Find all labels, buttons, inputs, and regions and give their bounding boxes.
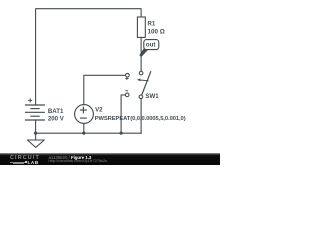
svg-text:PWSREPEAT(0,0,0.0005,5,0.001,0: PWSREPEAT(0,0,0.0005,5,0.001,0) — [95, 116, 186, 122]
switch SW1 control - terminal — [125, 93, 129, 97]
CircuitLab logo — [10, 156, 40, 160]
switch SW1 bottom contact terminal — [139, 95, 143, 99]
wire: bottom ground net — [36, 132, 142, 134]
wire: SW1 bottom contact down to ground net — [140, 99, 142, 134]
node flag "out" pointer — [139, 48, 148, 57]
ground symbol — [27, 140, 44, 147]
switch SW1 top contact terminal — [139, 71, 143, 75]
wire: BAT1 - lead down to ground — [35, 120, 37, 140]
wire: R1 bottom through node out to SW1 top contact — [140, 37, 142, 71]
SW1 control - polarity label — [125, 90, 128, 92]
V2 - mark — [80, 117, 87, 119]
node flag "out" box — [144, 40, 159, 50]
junction node at BAT1/ground — [34, 132, 37, 135]
wire: V2 - lead down to ground net — [83, 123, 85, 133]
battery BAT1 plates — [25, 105, 45, 120]
V2 + mark — [80, 107, 87, 114]
voltage source V2 body — [75, 105, 94, 124]
switch SW1 blade — [142, 71, 151, 95]
resistor R1 body — [137, 17, 145, 37]
svg-text:V2: V2 — [95, 107, 103, 114]
svg-text:R1: R1 — [148, 20, 156, 27]
svg-text:100 Ω: 100 Ω — [148, 28, 165, 35]
switch SW1 actuation arrow — [137, 78, 149, 81]
svg-text:out: out — [146, 42, 155, 49]
footer meta text — [49, 156, 92, 160]
svg-text:SW1: SW1 — [145, 93, 159, 100]
wire: SW1 control - left and down to ground net — [121, 95, 125, 133]
wire: V2 + terminal up and right to SW1 control + — [84, 75, 126, 105]
junction node at V2 bottom — [82, 132, 85, 135]
footer banner — [0, 153, 220, 165]
svg-text:BAT1: BAT1 — [48, 108, 64, 115]
switch SW1 control + terminal — [126, 73, 130, 77]
wire: net from BAT1 + up, across the top, down to R1 top — [36, 9, 142, 105]
SW1 control + polarity label — [125, 77, 128, 80]
battery BAT1 + polarity mark — [28, 98, 32, 102]
junction node at SW1 control - drop — [120, 132, 123, 135]
svg-text:200 V: 200 V — [48, 115, 65, 122]
